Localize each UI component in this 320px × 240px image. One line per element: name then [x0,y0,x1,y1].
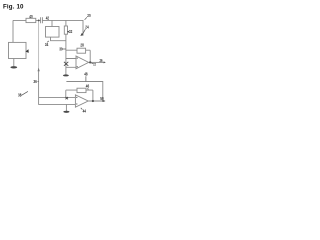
svg-text:22: 22 [93,62,96,66]
svg-text:32: 32 [69,29,73,34]
svg-text:40: 40 [29,14,33,19]
svg-text:24: 24 [85,25,89,30]
svg-text:36: 36 [33,79,37,84]
svg-text:Fig. 10: Fig. 10 [3,3,24,10]
svg-text:38: 38 [18,92,22,97]
svg-text:46: 46 [86,84,90,89]
svg-text:26: 26 [100,58,103,63]
svg-text:20: 20 [87,13,91,18]
svg-text:28: 28 [80,42,84,47]
svg-text:48: 48 [84,72,88,77]
svg-text:30: 30 [59,46,63,51]
svg-text:50: 50 [100,96,104,101]
svg-text:34: 34 [45,42,49,47]
svg-text:42: 42 [46,16,50,21]
svg-text:44: 44 [83,109,87,114]
